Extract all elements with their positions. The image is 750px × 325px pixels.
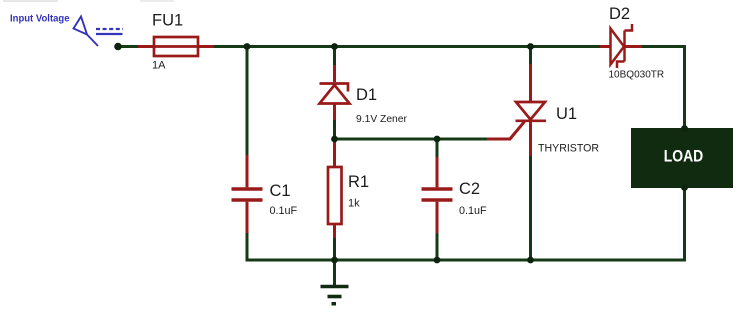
node input bbox=[114, 43, 122, 51]
svg-text:10BQ030TR: 10BQ030TR bbox=[609, 70, 665, 81]
capacitor C2 pins bbox=[436, 157, 439, 233]
capacitor C1 pins bbox=[246, 155, 249, 233]
svg-text:C2: C2 bbox=[459, 180, 480, 198]
wire mid rail bbox=[335, 138, 488, 141]
svg-text:1k: 1k bbox=[348, 198, 360, 210]
capacitor C1 plates bbox=[232, 189, 263, 200]
input terminal symbol bbox=[74, 17, 124, 47]
resistor R1 pins bbox=[333, 139, 336, 238]
svg-text:9.1V Zener: 9.1V Zener bbox=[356, 114, 408, 125]
wire U1 anode stub bbox=[529, 47, 532, 65]
node D1 anode / mid rail bbox=[331, 136, 338, 143]
wire U1 cathode to ground rail bbox=[529, 156, 532, 262]
wire right drop to LOAD bbox=[683, 45, 686, 128]
node ground rail C2 bbox=[434, 257, 441, 264]
svg-text:U1: U1 bbox=[556, 105, 577, 123]
svg-text:0.1uF: 0.1uF bbox=[270, 205, 298, 217]
LOAD block bbox=[631, 128, 733, 188]
node ground rail U1 bbox=[527, 257, 534, 264]
svg-text:D2: D2 bbox=[609, 5, 630, 23]
svg-text:LOAD: LOAD bbox=[664, 148, 704, 166]
wire LOAD bottom to ground rail bbox=[247, 188, 685, 260]
node U1 top bbox=[527, 43, 534, 50]
schottky diode D2 bbox=[611, 24, 633, 68]
thyristor U1 bbox=[516, 64, 547, 156]
schottky diode D2 pins bbox=[600, 45, 642, 48]
ground bbox=[321, 260, 349, 306]
node LOAD bottom bbox=[681, 184, 688, 191]
capacitor C2 plates bbox=[422, 189, 453, 200]
node ground rail R1 bbox=[331, 257, 338, 264]
wire D1 branch stub bbox=[333, 47, 336, 66]
svg-text:D1: D1 bbox=[356, 86, 377, 104]
svg-text:1A: 1A bbox=[152, 60, 166, 72]
svg-text:FU1: FU1 bbox=[152, 12, 183, 30]
svg-text:Input Voltage: Input Voltage bbox=[10, 14, 70, 25]
svg-text:R1: R1 bbox=[348, 173, 369, 191]
wire top rail green segments bbox=[118, 45, 685, 48]
svg-text:0.1uF: 0.1uF bbox=[459, 205, 487, 217]
svg-text:THYRISTOR: THYRISTOR bbox=[538, 143, 599, 155]
wire C1 branch vertical bbox=[246, 47, 249, 262]
node C2 top bbox=[434, 136, 441, 143]
node D1 top bbox=[331, 43, 338, 50]
fuse FU1 body bbox=[154, 37, 198, 56]
wire C2 branch vertical bbox=[436, 139, 439, 262]
wire D1 anode to mid rail bbox=[333, 120, 336, 140]
wire R1 to ground rail bbox=[333, 238, 336, 262]
wire gate red segment bbox=[487, 122, 525, 140]
node LOAD top bbox=[681, 125, 688, 132]
svg-text:C1: C1 bbox=[270, 182, 291, 200]
node C1 top bbox=[244, 43, 251, 50]
resistor R1 body bbox=[328, 167, 342, 224]
zener diode D1 bbox=[320, 65, 350, 120]
fuse FU1 pins bbox=[138, 45, 214, 48]
